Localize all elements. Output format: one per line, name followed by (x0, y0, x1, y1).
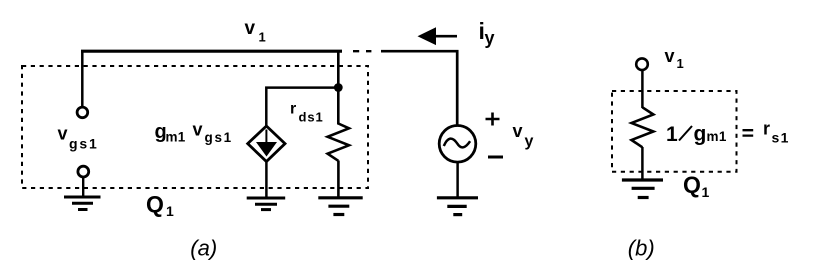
svg-text:(a): (a) (190, 235, 217, 260)
wire terminal to resistor (b) (641, 70, 644, 108)
ground under vy (437, 198, 478, 215)
terminal vgs1 top (77, 107, 88, 118)
wire v1 vertical to gate terminal (81, 51, 84, 107)
svg-text:v: v (193, 120, 203, 140)
label vy (513, 121, 534, 150)
current arrow iy (418, 27, 458, 45)
svg-text:ds1: ds1 (299, 110, 324, 125)
svg-text:1: 1 (259, 30, 266, 45)
svg-text:Q: Q (146, 191, 164, 217)
svg-text:r: r (763, 119, 770, 139)
label Q1 (a) (146, 191, 174, 219)
terminal v1 (b) (636, 58, 648, 70)
dependent current source gm1vgs1 (diamond with down arrow) (248, 126, 285, 162)
svg-text:1: 1 (677, 56, 684, 71)
svg-text:1: 1 (666, 123, 678, 146)
minus sign (488, 156, 503, 159)
ground (b) (622, 180, 663, 198)
wire v1 top horizontal (thick) (81, 50, 342, 53)
label rds1 (290, 101, 324, 125)
svg-text:m1: m1 (707, 129, 727, 144)
wire diamond top to drain node (266, 88, 338, 127)
ground under rds1 (318, 198, 362, 215)
ground under vgs1 (64, 197, 101, 210)
wire to source vy (381, 51, 457, 125)
svg-text:Q: Q (683, 172, 701, 198)
label iy (479, 18, 495, 48)
svg-text:m1: m1 (166, 130, 186, 145)
label gm1vgs1 (155, 120, 233, 146)
dashed box Q1 (b) (612, 91, 737, 172)
resistor 1/gm1 (632, 107, 654, 147)
svg-text:gs1: gs1 (205, 130, 233, 145)
label vgs1 (58, 124, 99, 152)
svg-text:gs1: gs1 (69, 136, 99, 152)
terminal vgs1 bottom (78, 166, 89, 177)
svg-text:(b): (b) (628, 235, 655, 260)
label v1 (a) (245, 18, 266, 45)
svg-text:1: 1 (166, 203, 174, 219)
wire rds1 branch top (337, 51, 340, 125)
svg-text:g: g (694, 123, 707, 146)
svg-text:s1: s1 (772, 130, 790, 146)
dashed box Q1 model (a) (22, 66, 368, 188)
ground under diamond (247, 198, 286, 210)
label v1 (b) (665, 46, 684, 71)
svg-text:v: v (58, 124, 68, 144)
wire terminal to ground (82, 177, 84, 197)
label 1/gm1 = rs1 (666, 119, 790, 147)
wire diamond bottom to ground (265, 161, 268, 199)
label Q1 (b) (683, 172, 710, 201)
junction dot drain node (334, 83, 343, 92)
svg-text:v: v (665, 46, 675, 66)
svg-text:y: y (485, 28, 495, 48)
svg-text:y: y (525, 133, 534, 150)
svg-text:v: v (245, 18, 256, 39)
svg-text:v: v (513, 121, 523, 141)
wire rds1 to ground (337, 161, 340, 199)
source vy circle (439, 126, 476, 163)
svg-text:1: 1 (702, 184, 710, 200)
wire break dashes at box edge (353, 50, 371, 52)
wire resistor to ground (b) (641, 147, 644, 180)
resistor rds1 (328, 124, 349, 161)
plus sign (486, 113, 500, 126)
sine wave inside source (444, 139, 470, 148)
wire source bottom (456, 163, 459, 198)
svg-text:r: r (290, 101, 296, 118)
